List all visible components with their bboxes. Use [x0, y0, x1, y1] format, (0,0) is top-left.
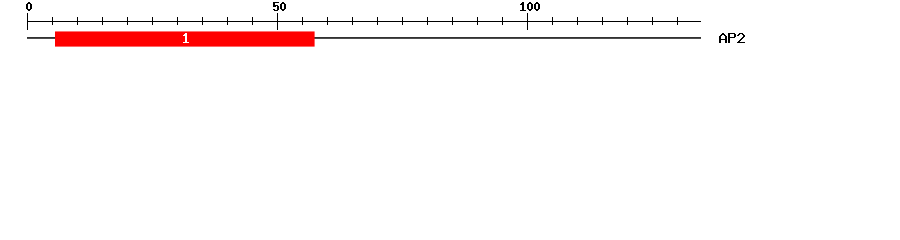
track label AP2 — [719, 33, 745, 43]
feature bar 1 — [55, 31, 315, 46]
major tick 100 — [527, 13, 528, 30]
ruler baseline — [27, 21, 701, 22]
label 50 — [273, 2, 286, 11]
minor ticks — [52, 17, 678, 25]
major tick 50 — [277, 13, 278, 30]
major tick 0 — [27, 13, 28, 30]
track line — [27, 37, 701, 39]
feature label 1 — [183, 33, 189, 43]
label 0 — [26, 2, 32, 11]
label 100 — [520, 2, 540, 11]
